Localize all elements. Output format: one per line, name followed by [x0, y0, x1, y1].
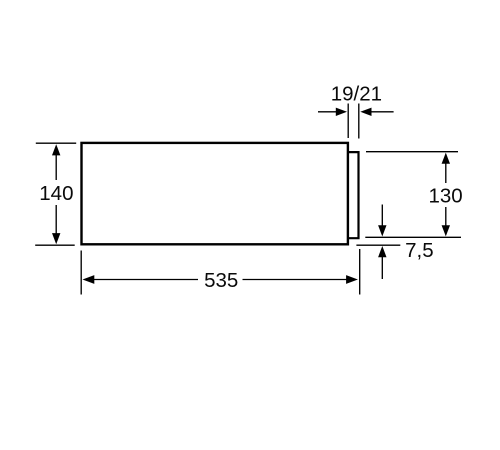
svg-text:7,5: 7,5 — [405, 239, 434, 262]
svg-text:19/21: 19/21 — [331, 83, 382, 106]
svg-text:535: 535 — [204, 269, 238, 292]
svg-text:140: 140 — [39, 182, 73, 205]
svg-text:130: 130 — [428, 185, 462, 208]
